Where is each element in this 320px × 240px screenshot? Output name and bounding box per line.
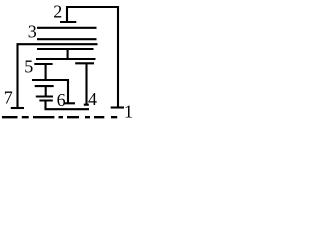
capacitor 6 vertical bbox=[45, 86, 47, 96]
plate L2 (lower plate right of 3) bbox=[37, 38, 97, 40]
conductor 4: bar, lead down and foot bbox=[75, 63, 94, 104]
foot plate of conductor 7 bbox=[11, 107, 24, 109]
plate of conductor 2 bbox=[60, 21, 76, 23]
foot plate of conductor 6 bbox=[64, 102, 75, 104]
node 1 foot plate bbox=[111, 106, 124, 108]
capacitor 6 I-beam top bar bbox=[35, 85, 54, 87]
lower plate under capacitor 6 with lead bending right bbox=[39, 101, 89, 110]
svg-text:5: 5 bbox=[24, 57, 33, 77]
conductor 7: top plate, left lead and foot bbox=[18, 44, 98, 108]
capacitor 5 top bar bbox=[34, 63, 52, 65]
capacitor 5 vertical bbox=[45, 64, 47, 80]
svg-text:4: 4 bbox=[88, 89, 97, 109]
svg-text:7: 7 bbox=[4, 88, 13, 108]
svg-text:6: 6 bbox=[57, 90, 66, 110]
wire from conductor 2 plate up and to the right bbox=[67, 7, 118, 107]
capacitor 5 bottom bar continuing right into lead of 6 bbox=[32, 80, 68, 103]
svg-text:2: 2 bbox=[53, 2, 62, 22]
capacitor 6 I-beam bottom bar bbox=[36, 95, 53, 97]
svg-text:3: 3 bbox=[28, 22, 37, 42]
plate L4 with link down to plate L5 bbox=[36, 49, 96, 59]
svg-text:1: 1 bbox=[124, 102, 133, 122]
plate L1 (upper plate right of 3) bbox=[37, 27, 97, 29]
background bbox=[0, 0, 134, 123]
ground (earth) dashed line bbox=[2, 116, 117, 118]
